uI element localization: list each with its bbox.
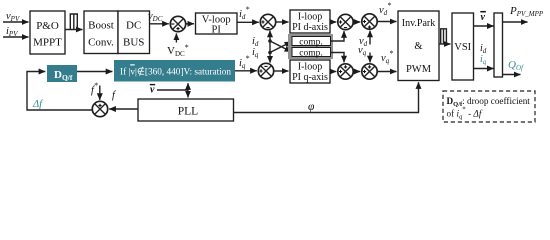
svg-text:id*: id*	[239, 5, 249, 21]
svg-text:DC: DC	[126, 20, 141, 32]
summing junction S2 (d-axis current error)	[260, 14, 275, 29]
svg-text:vd*: vd*	[379, 1, 391, 17]
wire vq* into Inv.Park	[377, 71, 396, 73]
block I-loop PI q-axis	[290, 60, 330, 83]
summing junction S5 (q-axis current error)	[258, 63, 273, 78]
block P&O MPPT	[30, 11, 65, 54]
pulse symbol 2	[441, 29, 447, 44]
summing junction S4	[362, 14, 377, 29]
pulse symbol 1	[70, 14, 77, 30]
block saturation (teal)	[114, 60, 235, 82]
wire iq* to sum5	[235, 70, 257, 72]
svg-text:φ: φ	[308, 101, 315, 113]
wire vDC to sum1	[150, 23, 169, 25]
wire sum3 to sum4	[353, 21, 360, 23]
svg-text:BUS: BUS	[123, 37, 144, 49]
wire sum2 to I-loop d	[276, 21, 289, 23]
svg-text:PPV_MPP: PPV_MPP	[509, 5, 544, 18]
block Inv.Park & PWM	[398, 11, 439, 81]
wire gate pulses PWM to VSI	[439, 43, 451, 45]
svg-text:If |v|∉[360, 440]V: saturation: If |v|∉[360, 440]V: saturation	[120, 65, 231, 77]
wire I-loop d to sum3	[330, 21, 336, 23]
svg-text:PI: PI	[212, 25, 222, 36]
svg-text:f: f	[112, 90, 117, 101]
wire iPV into MPPT	[3, 36, 29, 38]
block power calculation (narrow)	[494, 13, 503, 77]
block DQ/f (teal)	[47, 65, 77, 82]
wire Q output	[503, 74, 521, 76]
svg-text:PI q-axis: PI q-axis	[292, 72, 328, 83]
block Boost Conv.	[84, 11, 118, 54]
block comp1	[292, 37, 331, 48]
svg-text:comp.: comp.	[299, 37, 322, 47]
svg-text:Conv.: Conv.	[88, 37, 114, 49]
wire sum5 to I-loop q	[274, 70, 289, 72]
wire id iq feedback vertical	[269, 31, 271, 41]
summing junction S6	[338, 64, 353, 79]
svg-text:vq*: vq*	[381, 49, 393, 65]
svg-text:vDC: vDC	[148, 11, 163, 23]
wire sum1 to V-loop PI	[186, 23, 194, 25]
svg-text:VDC*: VDC*	[167, 43, 189, 58]
svg-text:I-loop: I-loop	[298, 12, 322, 23]
junction dot iq	[268, 51, 272, 55]
svg-text:iq*: iq*	[239, 54, 249, 70]
summing junction S7	[362, 64, 377, 79]
legend dashed box	[443, 91, 535, 122]
wire VDC* into sum1	[175, 33, 177, 42]
wire I-loop q to sum6	[330, 71, 336, 73]
summing junction S3	[338, 14, 353, 29]
block V-loop PI	[196, 13, 238, 36]
svg-text:I-loop: I-loop	[298, 62, 322, 73]
svg-text:PWM: PWM	[406, 64, 432, 75]
svg-text:f*: f*	[91, 81, 98, 96]
wire currents VSI to power block	[474, 68, 494, 70]
svg-text:iq: iq	[252, 47, 259, 59]
comp blocks grey backdrop	[288, 34, 333, 59]
svg-text:P&O: P&O	[36, 20, 59, 32]
wire id to comp2 (diagonal)	[270, 41, 291, 52]
svg-text:Boost: Boost	[88, 20, 114, 32]
wire vd* into Inv.Park	[377, 21, 396, 23]
wire P output	[503, 21, 528, 23]
wire DQ/f to saturation	[77, 71, 112, 73]
block DC BUS	[118, 11, 150, 54]
wire v-bar to saturation and PLL	[157, 89, 188, 91]
wire id* to sum2	[237, 21, 259, 23]
svg-text:VSI: VSI	[454, 42, 471, 53]
wire sum6 to sum7	[353, 71, 360, 73]
svg-text:v: v	[150, 85, 155, 96]
summing junction S1 (vDC)	[170, 16, 185, 31]
svg-text:iPV: iPV	[6, 26, 18, 38]
junction dot id	[268, 39, 272, 43]
wire delta-f feedback up into DQ/f	[27, 72, 92, 111]
svg-text:PI d-axis: PI d-axis	[292, 22, 328, 33]
svg-text:PLL: PLL	[178, 106, 198, 118]
block I-loop PI d-axis	[290, 10, 330, 33]
svg-text:MPPT: MPPT	[33, 37, 62, 49]
block VSI	[452, 13, 474, 80]
wire comp2 to sum6	[331, 53, 345, 63]
summing junction S8 (frequency error)	[92, 101, 107, 116]
wire comp1 to sum3	[331, 31, 345, 41]
svg-text:Δf: Δf	[32, 99, 44, 110]
wire gate pulses MPPT to Boost	[65, 29, 83, 31]
wire f* into sum8	[99, 86, 101, 100]
svg-text:Inv.Park: Inv.Park	[402, 18, 436, 29]
svg-text:v: v	[481, 12, 486, 23]
svg-text:vPV: vPV	[6, 11, 20, 23]
svg-text:QOf: QOf	[508, 59, 524, 72]
wire iq to comp1 (diagonal)	[270, 42, 291, 53]
wire v-bar VSI to power block	[474, 25, 494, 27]
wire vPV into MPPT	[3, 21, 29, 23]
block comp2	[292, 48, 331, 59]
svg-text:iq: iq	[480, 54, 487, 66]
svg-text:comp.: comp.	[299, 48, 322, 58]
svg-text:&: &	[414, 41, 422, 52]
wire phi from PLL to Inv.Park	[234, 82, 419, 112]
wire f from PLL to sum8	[109, 108, 138, 110]
block PLL	[138, 99, 234, 121]
